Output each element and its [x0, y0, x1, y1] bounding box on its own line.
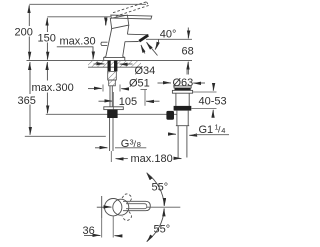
- threaded shank / mounting nut below deck: [108, 71, 117, 85]
- svg-text:40°: 40°: [160, 29, 177, 41]
- svg-text:Ø63: Ø63: [173, 77, 194, 89]
- deck cross-section hatch: [88, 61, 141, 67]
- deck / counter line: [27, 60, 193, 62]
- svg-text:Ø51: Ø51: [129, 78, 150, 90]
- arc down 55: [148, 209, 165, 241]
- supply pipe: [110, 86, 112, 107]
- linkage clamp: [104, 107, 124, 110]
- aerator face (dark): [139, 35, 148, 41]
- waste flange: [172, 90, 192, 93]
- dimension 200: [15, 5, 33, 60]
- waste tailpipe: [178, 126, 187, 158]
- svg-text:Ø34: Ø34: [135, 65, 156, 77]
- svg-text:55°: 55°: [154, 224, 171, 236]
- extension line top (200 ref, to raised lever tip): [29, 3, 146, 5]
- supply pipe end reference line (365 end): [25, 135, 106, 137]
- dimension 36: [83, 216, 120, 238]
- dimension Ø34 (deck hole): [94, 64, 156, 77]
- label G1 1/4: [170, 123, 229, 137]
- supply pipe lower section: [110, 118, 113, 162]
- svg-text:max.300: max.300: [32, 82, 74, 94]
- svg-text:105: 105: [119, 96, 137, 108]
- svg-text:200: 200: [15, 27, 33, 39]
- faucet body: [106, 25, 129, 56]
- pop-up waste plug cap: [174, 86, 191, 88]
- plug seal (black): [175, 88, 191, 90]
- pull-rod knob on body left: [101, 42, 108, 45]
- dimension Ø63: [158, 70, 206, 90]
- lever bar: [123, 201, 150, 210]
- pipe nut (black): [107, 110, 117, 118]
- mounting shank through deck (black): [108, 60, 111, 71]
- dashed lever down 55: [122, 212, 133, 222]
- dashed lever up 55: [122, 193, 133, 203]
- svg-text:150: 150: [38, 33, 56, 45]
- hose/link reference line (max.300 end): [46, 113, 177, 115]
- svg-text:4: 4: [221, 126, 225, 135]
- svg-text:365: 365: [18, 95, 36, 107]
- faucet lever (solid): [111, 15, 152, 19]
- lever ball: [113, 199, 129, 215]
- waste body lower: [176, 111, 189, 126]
- arc up 55: [148, 174, 165, 206]
- lower seal ring (black): [174, 106, 192, 111]
- svg-text:G: G: [121, 138, 130, 150]
- extension line 150 ref (to lever top): [47, 16, 110, 18]
- side lever knob (black): [166, 111, 174, 120]
- centerline right: [147, 206, 181, 208]
- svg-text:68: 68: [182, 46, 194, 58]
- dimension max.180: [116, 153, 182, 165]
- dimension 68: [182, 28, 194, 75]
- dimension max.300: [32, 62, 74, 113]
- svg-text:36: 36: [83, 225, 95, 237]
- svg-text:max.180: max.180: [131, 153, 173, 165]
- cartridge housing: [110, 15, 129, 29]
- svg-text:55°: 55°: [152, 182, 169, 194]
- small motion arrow at lever pivot: [106, 20, 108, 26]
- faucet lever raised (dashed): [113, 2, 149, 16]
- 40 degree annotation: [141, 29, 192, 56]
- dimension 150: [38, 18, 56, 60]
- svg-text:8: 8: [137, 140, 141, 149]
- svg-text:G1: G1: [199, 124, 214, 136]
- dimension 365: [18, 62, 36, 135]
- dimension 105: [99, 89, 160, 110]
- dimension 40-53: [192, 84, 227, 117]
- spout: [125, 34, 149, 42]
- base plate: [104, 57, 125, 61]
- dimension Ø51 (base): [88, 78, 150, 92]
- spout end (front view): [101, 196, 103, 218]
- label G3/8: [95, 138, 146, 151]
- waste body upper: [176, 93, 189, 106]
- svg-text:max.30: max.30: [60, 36, 96, 48]
- label max.30 with bent leader to deck: [57, 36, 96, 60]
- body circle: [105, 199, 122, 216]
- svg-text:40-53: 40-53: [199, 96, 227, 108]
